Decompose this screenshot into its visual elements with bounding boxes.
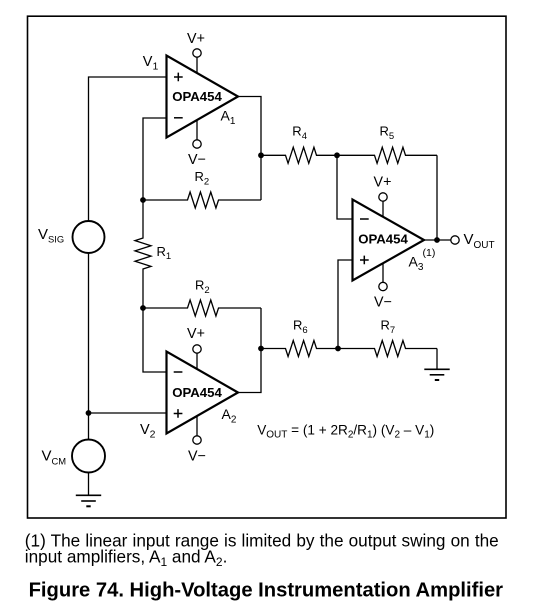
wire VCM bottom to ground [88,473,90,495]
node junction dot mid rail / upper R2 [140,197,146,203]
wire A3 output to VOUT terminal [424,239,451,241]
svg-text:input amplifiers, A1 and A2.: input amplifiers, A1 and A2. [25,546,228,569]
svg-text:Figure 74. High-Voltage Instru: Figure 74. High-Voltage Instrumentation … [29,580,504,602]
A1 minus input sign [174,117,183,119]
wire A3 V+ stub [382,201,384,217]
resistor R2 lower [143,300,261,316]
wire A2 + input from left rail [89,412,167,414]
op-amp U A2 triangle [167,352,239,434]
wire A3 inverting input from R4/R5 node [337,155,353,219]
svg-text:OPA454: OPA454 [358,231,408,246]
op-amp U A1 triangle [167,56,239,138]
resistor R1 vertical [135,200,151,308]
border frame [28,16,507,518]
svg-text:V+: V+ [187,31,205,47]
wire R5 feedback down to A3 output [436,155,438,239]
terminal VOUT [451,236,459,244]
node junction dot A2 output / R6 [258,346,264,352]
A3 minus input sign [360,218,369,220]
svg-text:OPA454: OPA454 [172,89,222,104]
wire R7 to ground [436,349,438,370]
wire left rail from VSIG bottom to VCM top [88,253,90,440]
wire A3 V- stub [382,263,384,283]
resistor R2 upper [143,192,261,208]
A1 plus input sign [174,73,183,82]
svg-text:V−: V− [188,448,206,464]
A3 plus input sign [360,256,369,265]
node junction dot on left rail at A2 + [86,410,92,416]
terminal A2 V+ [193,345,201,353]
resistor R7 [338,341,437,357]
node junction dot R6/R7/A3 + [335,346,341,352]
terminal A2 V- [193,436,201,444]
A2 minus input sign [174,371,183,373]
terminal A3 V- [379,282,387,290]
node junction dot A3 output / R5 [434,237,440,243]
svg-text:OPA454: OPA454 [172,385,222,400]
wire A2 V- stub [196,416,198,436]
svg-text:V−: V− [188,152,206,168]
svg-text:V−: V− [374,294,392,310]
resistor R5 [337,147,437,163]
wire A1 inverting input to mid rail [143,118,167,200]
op-amp U A3 triangle [353,200,425,281]
wire A2 V+ stub [196,353,198,369]
node junction dot mid rail / lower R2 [140,305,146,311]
svg-text:V+: V+ [187,326,205,342]
ground at R7 [424,369,449,380]
source VSIG [73,221,105,253]
ground at VCM [76,495,101,506]
wire A1 V+ stub [196,57,198,73]
wire A3 + input down to R6/R7 node [338,260,353,349]
A2 plus input sign [174,409,183,418]
wire A1 V- stub [196,120,198,140]
wire V1 input from left rail to A1 + input [89,77,167,221]
terminal A3 V+ [379,193,387,201]
svg-text:(1): (1) [423,247,436,259]
resistor R6 [261,341,338,357]
svg-text:V+: V+ [374,174,392,190]
wire A2 output to feedback corner [238,308,261,393]
wire mid rail to A2 inverting input [143,308,167,372]
node junction dot A1 output / R4 [258,152,264,158]
terminal A1 V+ [193,49,201,57]
node junction dot R4/R5/A3 inverting [334,152,340,158]
source VCM [72,440,105,473]
resistor R4 [261,147,337,163]
terminal A1 V- [193,140,201,148]
wire A1 output to feedback corner [238,97,261,201]
